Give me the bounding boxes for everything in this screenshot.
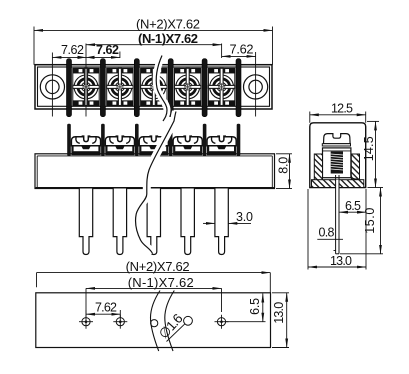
break mask top view <box>156 56 167 122</box>
dimension 12.5: dimension line <box>310 114 366 116</box>
dimension 8.0: extension top <box>276 153 292 155</box>
front pin 1 <box>79 189 92 255</box>
dimension 6.5 bottom: dimension line <box>262 294 264 322</box>
dimension 3.0: left leader <box>203 222 215 224</box>
svg-text:7.62: 7.62 <box>230 42 254 57</box>
front cell 5 <box>207 136 236 155</box>
pcb hole 2 <box>113 315 127 329</box>
terminal screw 2 <box>107 68 133 105</box>
svg-text:(N+2)X7.62: (N+2)X7.62 <box>126 259 190 274</box>
svg-text:(N-1)X7.62: (N-1)X7.62 <box>128 275 194 290</box>
mounting hole right (outer) <box>244 75 268 99</box>
dimension 0.8: leader line <box>317 238 343 240</box>
side screw head <box>324 134 351 144</box>
front rail inner right line <box>271 156 273 189</box>
dimension (N+2)X7.62 bottom: dimension line <box>37 272 271 274</box>
svg-text:15.0: 15.0 <box>363 208 377 234</box>
dimension 12.5: extension left <box>309 112 311 123</box>
barrier 3 <box>134 59 139 117</box>
side pin <box>334 175 340 254</box>
front rail outer <box>35 154 275 189</box>
side screw flange <box>322 144 350 146</box>
dimension (N-1)X7.62 top: extension line at terminal 1 <box>85 44 87 117</box>
side contact bend <box>351 170 360 179</box>
svg-text:7.62: 7.62 <box>95 300 117 314</box>
dimension 7.62 bottom: ext left <box>85 310 87 318</box>
pcb small hole right <box>184 316 193 325</box>
pcb small hole left <box>151 320 158 327</box>
dimension 3.0: right leader <box>228 222 251 224</box>
side screw thread <box>331 152 343 174</box>
side wall hatch right <box>351 154 359 184</box>
terminal screw 4 <box>175 68 201 105</box>
dimension 13.0 side: extension right <box>365 189 367 270</box>
dimension 14.5: extension top <box>367 120 379 122</box>
svg-text:13.0: 13.0 <box>330 254 352 268</box>
dimension 7.62 left: dimension line <box>52 56 120 58</box>
dimension 14.5: dimension line <box>375 121 377 187</box>
dimension 13.0 bottom: ext top <box>272 292 289 294</box>
side body outline <box>310 123 366 188</box>
pcb outline <box>36 293 271 348</box>
mounting hole left (outer) <box>40 75 64 99</box>
dimension 8.0: dimension line <box>289 154 291 189</box>
dimension 15.0: bottom extension <box>340 253 383 255</box>
terminal screw 1 <box>73 68 99 105</box>
front post 2 <box>101 124 105 156</box>
dimension 13.0 bottom: ext bottom <box>272 347 289 349</box>
front post 4 <box>169 124 173 156</box>
front cell 4 <box>173 136 202 155</box>
dimension 6.5 bottom: extension <box>226 321 266 323</box>
dimension (N-1)X7.62 bottom: dimension line <box>86 287 222 289</box>
dimension 7.62 left: extension at mounting hole <box>51 53 53 117</box>
dimension (N-1)X7.62 bottom: tick left <box>85 288 87 314</box>
svg-text:12.5: 12.5 <box>331 101 353 115</box>
front cell 1 <box>71 136 100 155</box>
dimension 7.62 bottom: ext right <box>119 310 121 318</box>
dimension 7.62 right: extension at mounting hole right <box>255 52 257 117</box>
front pin 3 <box>147 189 160 255</box>
dimension 7.62 bottom: dimension line <box>86 313 120 315</box>
dimension (N+2)X7.62 bottom: tick right <box>269 273 271 293</box>
dimension (N-1)X7.62 top: extension line at terminal 5 <box>221 44 223 59</box>
pcb hole 5 <box>215 315 229 329</box>
dimension Ø1.6: leader <box>167 324 185 342</box>
dimension (N-1)X7.62 bottom: tick right <box>221 288 223 312</box>
svg-text:(N-1)X7.62: (N-1)X7.62 <box>138 31 198 46</box>
svg-text:0.8: 0.8 <box>319 226 335 240</box>
svg-text:7.62: 7.62 <box>96 43 119 57</box>
break line front view <box>136 112 176 254</box>
svg-text:(N+2)X7.62: (N+2)X7.62 <box>136 17 200 32</box>
front pin 4 <box>181 189 194 255</box>
dimension 12.5: extension right <box>365 112 367 123</box>
side clamp frame <box>323 148 351 178</box>
dimension 7.62 left: extension at terminal 2 <box>119 52 121 59</box>
dimension 7.62 right: dimension line <box>222 55 256 57</box>
barrier 6 <box>236 59 241 117</box>
break mask front view <box>136 112 176 254</box>
pcb break line 2 <box>165 291 175 352</box>
mounting hole left (inner) <box>46 80 59 93</box>
front post 5 <box>203 124 207 156</box>
dimension (N+2)X7.62 top: extension line left <box>33 27 35 65</box>
dimension (N+2)X7.62 top: extension line right <box>272 27 274 65</box>
terminal screw 3 <box>141 68 167 105</box>
barrier 2 <box>100 59 105 117</box>
front pin 5 <box>215 189 228 255</box>
svg-text:6.5: 6.5 <box>248 298 262 315</box>
svg-text:13.0: 13.0 <box>272 302 286 324</box>
barrier 1 <box>67 59 72 117</box>
svg-text:8.0: 8.0 <box>276 157 290 174</box>
barrier 4 <box>168 59 173 117</box>
front pin 2 <box>113 189 126 255</box>
front cell 2 <box>105 136 134 155</box>
side clamp inner line <box>323 150 351 152</box>
top view body outer outline <box>35 65 272 109</box>
side bottom hatch band <box>312 180 364 188</box>
front post 1 <box>67 124 71 156</box>
svg-text:6.5: 6.5 <box>345 199 361 213</box>
svg-text:3.0: 3.0 <box>236 210 253 224</box>
dimension 6.5 side: dimension line <box>339 211 366 213</box>
dimension 13.0 side: extension left <box>307 189 309 270</box>
front rail inner top line <box>37 155 272 157</box>
svg-text:7.62: 7.62 <box>61 43 84 57</box>
front rail inner left line <box>36 156 38 189</box>
top view body inner outline <box>38 67 270 106</box>
pcb hole 1 <box>79 315 93 329</box>
svg-text:14.5: 14.5 <box>362 136 376 161</box>
dimension 7.62 left middle arrows <box>78 56 87 59</box>
dimension 13.0 bottom: dimension line <box>286 293 288 348</box>
dimension (N+2)X7.62 top: dimension line <box>34 29 273 31</box>
dimension (N+2)X7.62 bottom: tick left <box>36 273 38 288</box>
dimension 15.0: dimension line <box>380 188 382 254</box>
dimension 8.0: extension bottom <box>276 188 292 190</box>
dimension 15.0: shared extension <box>368 187 384 189</box>
front rail bottom edge <box>36 187 274 189</box>
pcb break line 1 <box>150 291 160 352</box>
break line top view <box>156 56 167 122</box>
terminal screw 5 <box>208 68 234 105</box>
mounting hole right (inner) <box>249 80 262 93</box>
front post 6 <box>237 124 241 156</box>
dimension (N-1)X7.62 top: dimension line <box>86 44 222 46</box>
side wall hatch left <box>314 154 322 184</box>
dimension 13.0 side: dimension line <box>308 266 366 268</box>
front post 3 <box>135 124 139 156</box>
front cell 3 <box>139 136 168 155</box>
barrier 5 <box>202 59 207 117</box>
